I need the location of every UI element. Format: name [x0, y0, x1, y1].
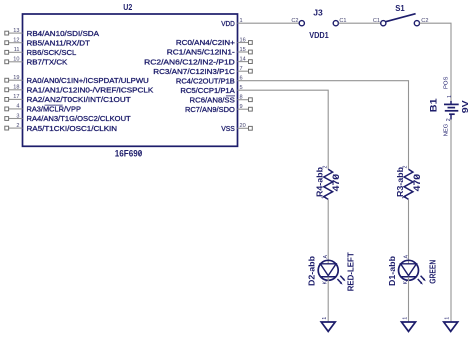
svg-text:1: 1 — [322, 196, 328, 199]
svg-text:GREEN: GREEN — [428, 260, 437, 284]
svg-text:RB7/TX/CK: RB7/TX/CK — [27, 58, 68, 67]
LED D2-abb (RED-LEFT) — [308, 252, 356, 291]
svg-text:B1: B1 — [428, 98, 439, 113]
svg-text:U2: U2 — [123, 2, 132, 12]
switch S1 — [373, 3, 429, 26]
svg-text:A: A — [323, 255, 329, 259]
svg-text:RA0/AN0/C1IN+/ICSPDAT/ULPWU: RA0/AN0/C1IN+/ICSPDAT/ULPWU — [27, 76, 149, 85]
pin 6 RC4/C2OUT/P1B — [176, 76, 243, 86]
svg-text:2: 2 — [403, 165, 409, 168]
svg-text:RC7/AN9/SDO: RC7/AN9/SDO — [185, 105, 235, 114]
svg-text:J3: J3 — [313, 8, 323, 17]
pin 10 RB7/TX/CK — [5, 57, 68, 67]
svg-text:9: 9 — [240, 104, 243, 110]
pin 13 RB4/AN10/SDI/SDA — [5, 28, 99, 38]
pin 17 RA2/AN2/T0CKI/INT/C1OUT — [5, 94, 131, 104]
pin 11 RB6/SCK/SCL — [5, 47, 77, 57]
pin 8 RC6/AN8/SS — [190, 95, 253, 105]
IC U2 box (16F690) — [23, 14, 238, 146]
pin 1 VDD — [221, 18, 242, 28]
svg-text:C2: C2 — [291, 18, 298, 24]
connector J3 — [291, 8, 346, 26]
LED D1-abb (GREEN) — [388, 255, 437, 286]
svg-text:R4-abb: R4-abb — [316, 167, 325, 197]
svg-text:16: 16 — [240, 37, 246, 43]
pin 20 VSS — [221, 123, 252, 133]
svg-text:1: 1 — [402, 196, 408, 199]
wire D2-abb to ground — [327, 277, 329, 322]
wire J3 to S1 — [339, 22, 381, 24]
svg-text:RA2/AN2/T0CKI/INT/C1OUT: RA2/AN2/T0CKI/INT/C1OUT — [27, 95, 132, 104]
wire battery to ground — [450, 120, 452, 323]
svg-text:17: 17 — [13, 94, 19, 100]
svg-text:11: 11 — [14, 47, 20, 53]
svg-text:K: K — [403, 280, 409, 284]
wire R4-abb to D2-abb — [327, 199, 329, 263]
pin 4 RA3/MCLR/VPP — [5, 104, 81, 114]
svg-text:16F690: 16F690 — [115, 149, 143, 159]
svg-text:RC2/AN6/C12/IN2-/P1D: RC2/AN6/C12/IN2-/P1D — [144, 57, 235, 66]
svg-text:1: 1 — [322, 317, 328, 320]
svg-text:2: 2 — [16, 123, 19, 129]
resistor R4-abb 470 — [316, 165, 341, 199]
svg-text:R3-abb: R3-abb — [396, 167, 405, 197]
pin 14 RC2/AN6/C12/IN2-/P1D — [144, 56, 252, 66]
pin 12 RB5/AN11/RX/DT — [5, 38, 91, 48]
svg-text:VSS: VSS — [221, 124, 235, 133]
svg-text:RB5/AN11/RX/DT: RB5/AN11/RX/DT — [27, 38, 91, 47]
svg-text:15: 15 — [240, 47, 246, 53]
wire VDD pin1 to J3 — [238, 22, 300, 24]
pin 19 RA0/AN0/C1IN+/ICSPDAT/ULPWU — [5, 75, 149, 85]
svg-text:10: 10 — [13, 57, 19, 63]
svg-text:RC1/AN5/C12IN1-: RC1/AN5/C12IN1- — [167, 48, 236, 57]
pin 7 RC3/AN7/C12IN3/P1C — [153, 66, 252, 76]
svg-text:RA4/AN3/T1G/OSC2/CLKOUT: RA4/AN3/T1G/OSC2/CLKOUT — [27, 114, 132, 123]
pin 3 RA4/AN3/T1G/OSC2/CLKOUT — [5, 113, 131, 123]
svg-text:1: 1 — [445, 317, 451, 320]
svg-text:RB6/SCK/SCL: RB6/SCK/SCL — [27, 48, 77, 57]
wire pin5 to R4-abb — [238, 90, 329, 169]
svg-text:D1-abb: D1-abb — [388, 256, 397, 286]
svg-text:4: 4 — [16, 104, 19, 110]
wire S1 to battery — [420, 23, 451, 101]
svg-text:VDD: VDD — [221, 19, 235, 28]
svg-text:RC5/CCP1/P1A: RC5/CCP1/P1A — [180, 86, 235, 95]
pin 16 RC0/AN4/C2IN+ — [176, 37, 252, 47]
svg-text:13: 13 — [13, 28, 19, 34]
svg-text:19: 19 — [13, 75, 19, 81]
resistor R3-abb 470 — [396, 165, 422, 199]
ground (battery NEG) — [444, 317, 458, 332]
pin 15 RC1/AN5/C12IN1- — [167, 47, 252, 57]
battery B1 9V — [428, 76, 470, 136]
svg-text:7: 7 — [240, 66, 243, 72]
wire R3-abb to D1-abb — [408, 199, 410, 263]
svg-text:9V: 9V — [460, 100, 470, 114]
pin 9 RC7/AN9/SDO — [185, 104, 252, 114]
svg-text:3: 3 — [16, 113, 19, 119]
svg-text:POS: POS — [443, 76, 449, 89]
svg-text:RB4/AN10/SDI/SDA: RB4/AN10/SDI/SDA — [27, 29, 100, 38]
pin 5 RC5/CCP1/P1A — [180, 85, 242, 95]
svg-text:S1: S1 — [395, 3, 405, 13]
svg-text:RC3/AN7/C12IN3/P1C: RC3/AN7/C12IN3/P1C — [153, 67, 235, 76]
svg-text:A: A — [403, 255, 409, 259]
svg-text:1: 1 — [402, 317, 408, 320]
svg-text:20: 20 — [240, 123, 246, 129]
ground (LED D2 cathode) — [321, 317, 335, 332]
svg-text:RED-LEFT: RED-LEFT — [347, 252, 356, 291]
svg-text:14: 14 — [240, 56, 246, 62]
ground (LED D1 cathode) — [402, 317, 416, 332]
svg-text:2: 2 — [322, 165, 328, 168]
svg-text:8: 8 — [240, 95, 243, 101]
svg-text:K: K — [323, 280, 329, 284]
svg-text:1: 1 — [447, 95, 453, 98]
svg-text:RA1/AN1/C12IN0-/VREF/ICSPCLK: RA1/AN1/C12IN0-/VREF/ICSPCLK — [27, 86, 154, 95]
svg-text:RC6/AN8/SS: RC6/AN8/SS — [190, 95, 235, 104]
wire pin6 to R3-abb — [238, 81, 409, 170]
pin 18 RA1/AN1/C12IN0-/VREF/ICSPCLK — [5, 85, 154, 95]
svg-text:RA3/MCLR/VPP: RA3/MCLR/VPP — [27, 105, 82, 114]
svg-text:12: 12 — [13, 38, 19, 44]
svg-text:C1: C1 — [373, 18, 380, 24]
svg-text:RC0/AN4/C2IN+: RC0/AN4/C2IN+ — [176, 38, 235, 47]
svg-text:RC4/C2OUT/P1B: RC4/C2OUT/P1B — [176, 76, 235, 85]
svg-text:18: 18 — [13, 85, 19, 91]
svg-text:VDD1: VDD1 — [309, 31, 329, 40]
pin 2 RA5/T1CKI/OSC1/CLKIN — [5, 123, 117, 133]
wire D1-abb to ground — [408, 277, 410, 322]
svg-text:RA5/T1CKI/OSC1/CLKIN: RA5/T1CKI/OSC1/CLKIN — [27, 124, 118, 133]
svg-text:D2-abb: D2-abb — [308, 256, 317, 286]
svg-text:NEG: NEG — [443, 124, 449, 137]
